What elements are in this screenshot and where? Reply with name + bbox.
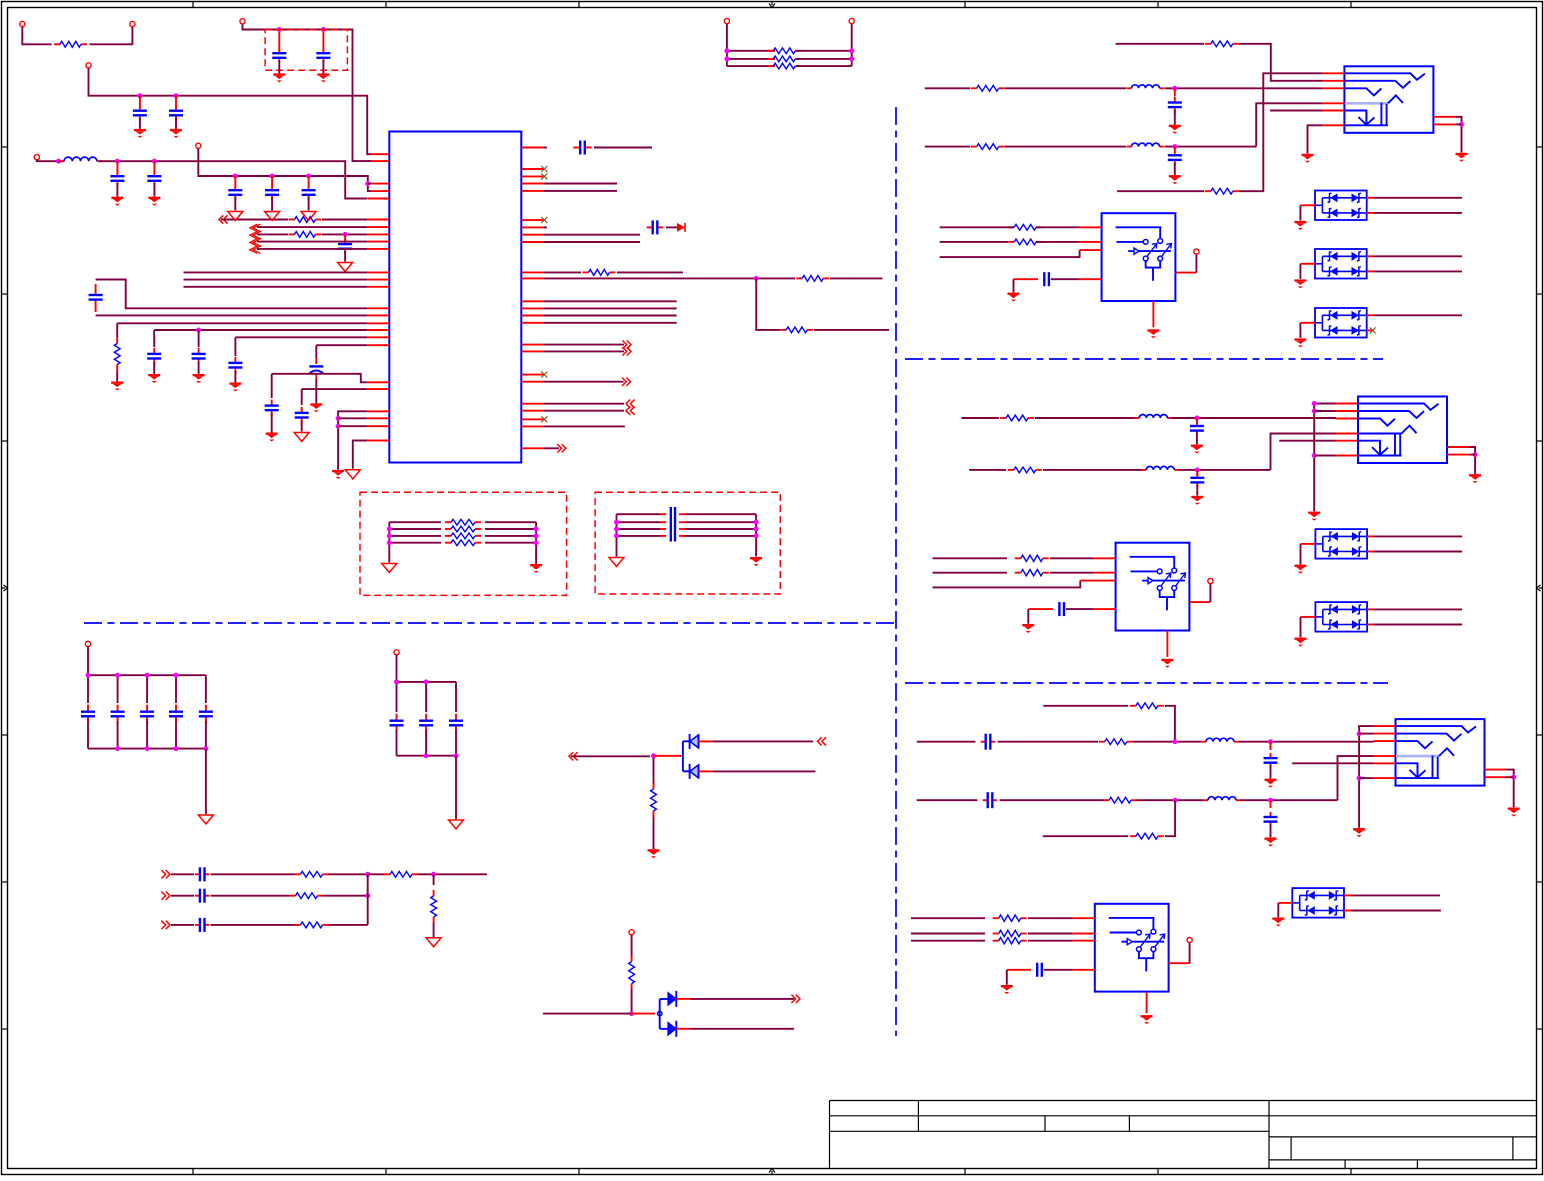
wire	[676, 1028, 690, 1030]
wire	[933, 581, 1081, 588]
wire	[1373, 740, 1375, 742]
junction	[152, 159, 157, 164]
port chevron	[818, 737, 822, 745]
wire	[998, 741, 1098, 743]
pin	[1073, 969, 1095, 971]
wire	[543, 410, 624, 412]
wire	[324, 895, 368, 897]
ground	[1294, 221, 1306, 223]
section separator vertical	[895, 107, 897, 1036]
wire	[543, 350, 624, 352]
capacitor C7	[344, 234, 346, 240]
wire	[211, 873, 295, 875]
wire	[257, 248, 367, 250]
wire	[171, 873, 194, 875]
capacitor	[195, 873, 200, 875]
wire	[1359, 726, 1373, 828]
wire	[257, 226, 367, 228]
usb connector J3 pins	[1374, 726, 1507, 778]
wire	[257, 233, 288, 235]
wire	[1507, 776, 1514, 778]
ground	[198, 815, 213, 824]
connector pin P3	[86, 63, 91, 68]
wire	[1013, 279, 1015, 292]
capacitor C28	[983, 799, 988, 801]
ground	[1265, 779, 1277, 781]
esd array D3	[1315, 191, 1367, 221]
resistor R25	[993, 933, 999, 935]
no-connect	[541, 372, 547, 378]
ground	[1294, 338, 1306, 340]
connector pin P7	[849, 18, 854, 23]
junction	[1312, 409, 1317, 414]
wire	[1469, 447, 1475, 474]
pin	[1073, 940, 1095, 942]
wire	[89, 68, 372, 154]
junction	[1511, 775, 1516, 780]
wire	[184, 271, 368, 273]
wire	[1344, 910, 1351, 912]
usb connector J1	[1344, 66, 1433, 133]
wire	[116, 323, 118, 338]
wire	[37, 160, 57, 161]
resistor	[653, 783, 655, 789]
ground	[332, 470, 344, 472]
wire	[1137, 799, 1203, 801]
resistor	[295, 924, 301, 926]
wire	[940, 241, 1008, 243]
pin	[1080, 241, 1102, 243]
connector pin P11	[1194, 249, 1199, 254]
wire	[316, 344, 367, 346]
wire	[676, 998, 690, 1000]
pin	[1189, 601, 1210, 603]
wire	[1165, 706, 1175, 742]
dual diode D2	[658, 991, 677, 1037]
ground	[111, 382, 123, 384]
wire	[617, 271, 683, 273]
wire	[543, 403, 624, 405]
wire	[1359, 733, 1373, 735]
wire	[1314, 455, 1336, 457]
junction	[365, 181, 370, 186]
ground	[449, 820, 464, 829]
wire	[368, 873, 384, 875]
wire	[1374, 197, 1462, 199]
wire	[211, 895, 290, 897]
wire	[433, 923, 435, 938]
section separator left	[84, 622, 896, 624]
wire	[925, 146, 970, 148]
wire	[543, 300, 676, 302]
section separator top-right	[905, 358, 1383, 360]
wire	[22, 27, 51, 44]
wire	[1308, 125, 1323, 153]
wire	[940, 250, 1080, 257]
junction	[1268, 739, 1273, 744]
wire	[338, 417, 367, 419]
wire	[322, 233, 367, 235]
no-connect	[1370, 327, 1376, 333]
connector pin P1-2	[130, 21, 135, 26]
wire	[940, 226, 970, 228]
capacitor C20	[1174, 88, 1176, 96]
capacitor pack CN1	[614, 507, 759, 557]
junction	[306, 174, 311, 179]
resistor pack RN2	[387, 519, 539, 564]
junction	[849, 56, 854, 61]
wire	[1300, 544, 1302, 565]
resistor R12	[971, 146, 977, 148]
section separator mid-right	[905, 682, 1388, 684]
junction	[724, 48, 729, 53]
junction	[277, 27, 282, 32]
wire	[970, 226, 1008, 228]
wire	[1359, 777, 1373, 779]
ground	[1295, 638, 1307, 640]
wire	[1367, 329, 1374, 331]
ground	[1191, 445, 1203, 447]
port chevron	[562, 444, 566, 452]
connector pin P8	[85, 641, 90, 646]
ground	[148, 374, 160, 376]
resistor R15	[1008, 241, 1014, 243]
ground	[1008, 293, 1020, 295]
ground	[294, 433, 309, 442]
wire	[1300, 617, 1302, 638]
wire	[1028, 940, 1073, 942]
ground	[193, 374, 205, 376]
wire	[1367, 197, 1374, 199]
resistor R2	[289, 219, 295, 221]
junction	[651, 753, 656, 758]
wire	[1172, 417, 1336, 419]
dashed box	[360, 492, 567, 595]
wire	[1374, 212, 1462, 214]
junction	[137, 93, 142, 98]
junction	[115, 159, 120, 164]
ground	[266, 433, 278, 435]
junction	[1172, 739, 1177, 744]
wire	[338, 411, 367, 470]
pin	[1146, 992, 1148, 1014]
wire	[338, 425, 367, 427]
wire	[631, 935, 633, 956]
wire	[1179, 469, 1271, 471]
wire	[1367, 608, 1374, 610]
junction	[336, 424, 341, 429]
wire	[933, 557, 1008, 559]
capacitor bank CB1	[81, 647, 213, 814]
title block	[830, 1101, 1537, 1169]
junction	[1195, 467, 1200, 472]
wire	[257, 241, 367, 243]
capacitor	[271, 176, 273, 186]
ground	[1508, 808, 1520, 810]
ground	[750, 557, 762, 559]
wire	[1469, 454, 1475, 456]
resistor	[433, 890, 435, 896]
wire	[198, 149, 371, 192]
connector pin P2	[240, 19, 245, 24]
ground	[1353, 828, 1365, 830]
wire	[1367, 624, 1374, 626]
wire	[1008, 226, 1014, 228]
wire	[1292, 762, 1373, 764]
junction	[1312, 453, 1317, 458]
wire	[302, 388, 368, 390]
ground	[609, 558, 624, 567]
wire	[925, 87, 970, 89]
wire	[117, 322, 367, 324]
wire	[1455, 123, 1461, 125]
capacitor C24	[1196, 470, 1198, 476]
wire	[1043, 705, 1128, 707]
analog switch U3	[1116, 543, 1190, 631]
wire	[272, 374, 368, 383]
wire	[1028, 917, 1073, 919]
ground	[1456, 153, 1468, 155]
wire	[1367, 551, 1374, 553]
wire	[1165, 146, 1256, 148]
wire	[1005, 87, 1126, 89]
wire	[368, 183, 371, 185]
junction	[1473, 452, 1478, 457]
wire	[1299, 264, 1301, 279]
resistor R1	[54, 43, 60, 45]
wire	[221, 219, 288, 221]
capacitor C21	[1174, 147, 1176, 150]
wire	[271, 374, 273, 398]
ground	[170, 129, 182, 131]
connector pin P13	[1187, 938, 1192, 943]
ground	[1308, 512, 1320, 514]
ground	[111, 197, 123, 199]
wire	[543, 277, 795, 279]
esd array	[1315, 602, 1367, 632]
junction	[1172, 144, 1177, 149]
wire	[1507, 770, 1514, 808]
no-connect	[541, 416, 547, 422]
ground	[1302, 154, 1314, 156]
ground	[382, 564, 397, 573]
wire	[814, 329, 889, 331]
resistor R26	[993, 940, 999, 942]
no-connect	[541, 173, 547, 179]
port chevron	[166, 921, 170, 929]
capacitor C1	[278, 32, 280, 51]
junction	[336, 416, 341, 421]
wire	[756, 278, 780, 330]
ground	[345, 470, 360, 479]
wire	[699, 740, 713, 742]
capacitor C10	[198, 330, 200, 347]
wire	[329, 924, 368, 926]
wire	[90, 27, 133, 44]
ground	[1191, 496, 1203, 498]
wire	[543, 234, 640, 236]
wire	[1028, 933, 1073, 935]
ground	[1022, 624, 1034, 626]
junction	[196, 328, 201, 333]
capacitor C14	[301, 407, 303, 413]
wire	[171, 895, 194, 897]
pin	[1169, 962, 1190, 964]
wire	[1239, 741, 1374, 743]
wire	[543, 307, 676, 309]
ground	[1141, 1015, 1153, 1017]
resistor R14	[1008, 226, 1014, 228]
ground	[265, 212, 280, 221]
wire	[1367, 270, 1374, 272]
wire	[1279, 440, 1336, 442]
no-connect	[541, 166, 547, 172]
wire	[830, 277, 883, 279]
wire	[96, 280, 368, 309]
wire	[1344, 894, 1351, 896]
wire	[1050, 557, 1094, 559]
port chevron	[626, 378, 630, 386]
junction	[1357, 731, 1362, 736]
junction	[270, 174, 275, 179]
pin	[1152, 301, 1154, 327]
esd array D5	[1315, 308, 1367, 338]
wire	[1035, 417, 1136, 419]
resistor R13	[1205, 190, 1211, 192]
connector pin P1-1	[20, 21, 25, 26]
wire	[653, 758, 655, 785]
wire	[315, 345, 317, 358]
junction	[724, 56, 729, 61]
resistor R22	[1103, 799, 1109, 801]
junction	[1312, 401, 1317, 406]
wire	[1189, 943, 1191, 963]
inductor L6	[1201, 741, 1206, 743]
wire	[1241, 799, 1338, 801]
port chevron	[166, 892, 170, 900]
wire	[1256, 103, 1322, 146]
ground	[1295, 565, 1307, 567]
port chevron	[569, 752, 573, 760]
capacitor C26	[981, 741, 986, 743]
wire	[171, 924, 194, 926]
capacitor C5	[116, 161, 118, 172]
wire	[1338, 756, 1374, 800]
dashed box	[265, 30, 347, 70]
wire	[1050, 572, 1094, 574]
wire	[1277, 903, 1279, 917]
resistor R4	[116, 338, 118, 344]
wire	[1116, 43, 1204, 45]
capacitor C12 feedthrough	[315, 358, 317, 364]
capacitor	[195, 895, 200, 897]
wire	[631, 989, 633, 1014]
capacitor C13	[271, 400, 273, 406]
wire	[543, 271, 581, 273]
junction	[431, 872, 436, 877]
wire	[1299, 205, 1301, 220]
ground	[1161, 659, 1173, 661]
junction	[629, 1011, 634, 1016]
ground	[1147, 329, 1159, 331]
resistor	[290, 895, 296, 897]
wire	[1165, 800, 1175, 836]
wire	[1367, 314, 1374, 316]
port chevron	[627, 340, 631, 348]
connector pin P4	[196, 143, 201, 148]
wire	[367, 874, 369, 925]
junction	[174, 93, 179, 98]
analog switch U2	[1102, 213, 1176, 301]
wire	[243, 24, 372, 161]
ground	[1169, 125, 1181, 127]
pin	[1080, 278, 1102, 280]
wire	[1027, 609, 1029, 624]
resistor R10	[1205, 43, 1211, 45]
esd array	[1292, 888, 1344, 918]
capacitor	[234, 176, 236, 186]
capacitor C23	[1196, 418, 1198, 424]
capacitor C16	[543, 226, 547, 228]
wire	[911, 917, 985, 919]
ground	[317, 73, 329, 75]
wire	[969, 469, 1006, 471]
inductor L1	[59, 160, 64, 162]
wire	[353, 441, 368, 469]
IC U1 left pins	[367, 154, 389, 440]
resistor R16	[1000, 417, 1006, 419]
wire	[301, 389, 303, 405]
wire	[1117, 190, 1204, 192]
wire	[961, 417, 999, 419]
wire	[1239, 44, 1322, 81]
wire	[917, 799, 978, 801]
wire	[329, 873, 368, 875]
ground	[310, 403, 322, 405]
wire	[1374, 255, 1462, 257]
capacitor C4	[175, 96, 177, 106]
wire	[543, 344, 624, 346]
pin	[1094, 608, 1116, 610]
wire	[1374, 314, 1462, 316]
resistor R18	[1015, 557, 1021, 559]
wire	[116, 371, 118, 382]
no-connect	[541, 217, 547, 223]
wire	[96, 314, 368, 316]
wire	[543, 190, 617, 192]
resistor pack RN1	[727, 24, 852, 69]
resistor R6	[796, 277, 802, 279]
dual diode D1	[657, 734, 699, 779]
ground	[1169, 175, 1181, 177]
junction	[321, 27, 326, 32]
junction	[1459, 122, 1464, 127]
wire	[184, 279, 368, 281]
port chevron	[796, 995, 800, 1003]
port chevron	[219, 215, 223, 223]
wire	[1006, 970, 1008, 985]
resistor R24	[993, 917, 999, 919]
inductor L4	[1134, 417, 1139, 419]
junction	[1357, 776, 1362, 781]
capacitor bank CB2	[390, 655, 464, 819]
ground	[228, 212, 243, 221]
wire	[653, 817, 655, 849]
ground	[426, 938, 441, 947]
IC U1 body	[389, 132, 521, 463]
capacitor C25	[1028, 608, 1053, 610]
connector pin P12	[1208, 578, 1213, 583]
